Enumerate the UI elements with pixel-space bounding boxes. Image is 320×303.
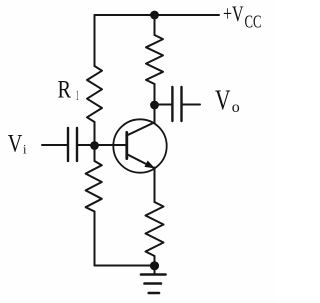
svg-text:V: V: [8, 129, 23, 158]
wire R1 bottom lead: [94, 122, 96, 146]
wire R2 top lead: [94, 146, 96, 162]
wire base node to transistor base: [95, 144, 127, 146]
svg-text:V: V: [215, 86, 231, 117]
node ground junction: [150, 261, 159, 270]
label R1: [58, 75, 79, 104]
svg-text:o: o: [232, 99, 240, 116]
wire Rc bottom lead: [154, 84, 156, 105]
wire collector node to C2: [155, 104, 173, 106]
wire C1 to base node: [77, 144, 95, 146]
wire bottom rail: [95, 265, 155, 267]
node Vcc junction: [150, 11, 159, 20]
svg-text:i: i: [23, 143, 27, 157]
svg-text:CC: CC: [245, 12, 262, 32]
resistor R2: [86, 161, 102, 212]
resistor RC (collector): [146, 35, 163, 84]
wire input lead: [42, 144, 68, 146]
wire collector node to transistor: [154, 105, 156, 123]
transistor Q1: [113, 119, 166, 172]
ground: [141, 266, 166, 293]
label Vo: [215, 86, 240, 117]
resistor RE (emitter): [146, 202, 164, 256]
capacitor C1 (input): [68, 128, 77, 161]
wire emitter lead: [154, 168, 156, 203]
label +Vcc: [223, 1, 262, 32]
svg-text:R: R: [58, 75, 72, 104]
svg-text:1: 1: [76, 88, 79, 104]
wire Re bottom lead: [154, 256, 156, 266]
wire Rc top lead: [154, 15, 156, 35]
svg-text:+V: +V: [223, 1, 244, 26]
wire R2 bottom lead: [94, 212, 96, 266]
wire C2 to Vo: [182, 104, 201, 106]
wire top supply rail: [95, 14, 220, 16]
capacitor C2 (output): [172, 87, 181, 121]
resistor R1: [87, 66, 102, 122]
node collector junction: [150, 101, 159, 110]
wire R1 top lead: [94, 15, 96, 66]
node base junction: [90, 141, 99, 150]
label Vi: [8, 129, 27, 158]
